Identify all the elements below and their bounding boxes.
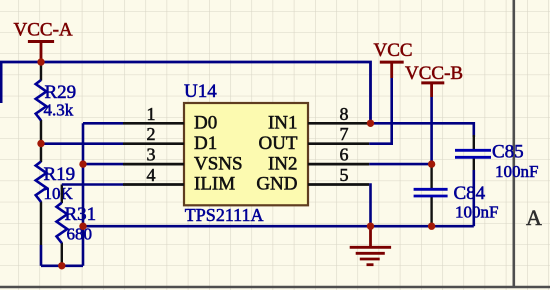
designator U14 xyxy=(184,81,217,102)
label R31 xyxy=(65,204,97,225)
wire left vertical x=83.0 (D0/VSNS/GND net) xyxy=(82,123,85,265)
sheet border right line xyxy=(512,0,515,288)
capacitor C85 leads xyxy=(473,135,475,226)
pin 1 (D0) xyxy=(123,122,184,125)
pin 5 (GND) xyxy=(308,183,369,186)
svg-text:A: A xyxy=(526,205,542,230)
resistor R19 xyxy=(36,162,47,202)
value 10K xyxy=(44,184,74,203)
svg-text:VSNS: VSNS xyxy=(194,153,243,174)
svg-text:4.3k: 4.3k xyxy=(44,101,74,120)
junction dot IN2 / VCC-B / C84 xyxy=(428,160,435,167)
svg-text:GND: GND xyxy=(256,174,297,195)
svg-text:D0: D0 xyxy=(194,113,217,134)
svg-text:VCC-A: VCC-A xyxy=(14,19,73,40)
svg-text:OUT: OUT xyxy=(258,133,297,154)
pin name D0 xyxy=(194,113,217,134)
svg-text:C84: C84 xyxy=(454,183,486,204)
value 4.3k xyxy=(44,101,74,120)
ground symbol xyxy=(350,226,391,265)
power symbol VCC-B xyxy=(405,63,463,97)
wire VCC-B to IN2 xyxy=(430,97,433,164)
junction dot at VCC-A / rail xyxy=(37,58,44,65)
junction dot IN1 / rail xyxy=(367,120,374,127)
resistor R29 leads xyxy=(40,62,42,144)
IC U14 body (TPS2111A) xyxy=(184,103,308,205)
svg-text:C85: C85 xyxy=(492,141,524,162)
capacitor C84 xyxy=(414,189,448,196)
pin 2 (D1) xyxy=(123,142,184,145)
wire ILIM row xyxy=(62,183,123,186)
resistor R31 xyxy=(57,203,68,243)
power symbol VCC-A xyxy=(14,19,73,62)
pin number 7 xyxy=(340,124,349,144)
pin number 8 xyxy=(340,104,349,124)
resistor R19 leads xyxy=(40,144,42,266)
pin number 2 xyxy=(147,124,156,144)
junction dot R29 bottom / D1 wire xyxy=(37,140,44,147)
svg-text:2: 2 xyxy=(147,124,156,144)
comment TPS2111A xyxy=(185,205,264,225)
pin name VSNS xyxy=(194,153,243,174)
sheet zone label A xyxy=(526,205,542,230)
label C84 xyxy=(454,183,486,204)
pin 3 (VSNS) xyxy=(123,163,184,166)
pin 8 (IN1) xyxy=(308,122,369,125)
sheet border bottom line xyxy=(0,286,550,289)
pin name GND xyxy=(256,174,297,195)
svg-text:3: 3 xyxy=(147,145,156,165)
pin number 4 xyxy=(147,165,156,185)
power symbol VCC xyxy=(374,40,413,78)
value 100nF C85 xyxy=(495,162,538,181)
svg-text:10K: 10K xyxy=(44,184,74,203)
wire ground rail xyxy=(83,225,474,228)
svg-text:IN2: IN2 xyxy=(268,153,298,174)
svg-text:D1: D1 xyxy=(194,133,217,154)
wire VCC to OUT xyxy=(369,78,392,144)
svg-text:100nF: 100nF xyxy=(495,162,538,181)
svg-text:4: 4 xyxy=(147,165,156,185)
label R29 xyxy=(45,82,77,103)
pin number 5 xyxy=(340,165,349,185)
junction dot ground rail left xyxy=(79,223,86,230)
wire: left edge vertical xyxy=(0,62,3,103)
svg-text:TPS2111A: TPS2111A xyxy=(185,205,264,225)
wire GND pin down xyxy=(369,185,370,227)
pin 6 (IN2) xyxy=(308,163,369,166)
pin 7 (OUT) xyxy=(308,142,369,145)
wire D0 row xyxy=(83,122,123,125)
wire: top VCC-A rail xyxy=(0,62,371,123)
pin name ILIM xyxy=(194,174,235,195)
pin name IN2 xyxy=(268,153,298,174)
svg-text:U14: U14 xyxy=(184,81,217,102)
pin number 6 xyxy=(340,145,349,165)
svg-text:VCC-B: VCC-B xyxy=(405,63,463,84)
wire VSNS row xyxy=(83,163,123,166)
junction dot VSNS xyxy=(79,160,86,167)
resistor R31 leads xyxy=(61,185,63,266)
value 100nF C84 xyxy=(455,202,498,221)
svg-text:IN1: IN1 xyxy=(268,113,298,134)
label R19 xyxy=(44,164,76,185)
wire IN2 row extension xyxy=(369,163,431,166)
svg-text:5: 5 xyxy=(340,165,349,185)
value 680 xyxy=(67,224,93,243)
pin name OUT xyxy=(258,133,297,154)
svg-text:ILIM: ILIM xyxy=(194,174,235,195)
junction dot GND rail xyxy=(367,223,374,230)
capacitor C84 leads xyxy=(430,164,432,226)
pin 4 (ILIM) xyxy=(123,183,184,186)
svg-text:R19: R19 xyxy=(44,164,76,185)
svg-text:R31: R31 xyxy=(65,204,97,225)
pin name IN1 xyxy=(268,113,298,134)
pin number 3 xyxy=(147,145,156,165)
junction dot C84 bottom xyxy=(428,223,435,230)
svg-text:100nF: 100nF xyxy=(455,202,498,221)
junction dot R31 bottom xyxy=(58,262,65,269)
svg-text:6: 6 xyxy=(340,145,349,165)
resistor R29 xyxy=(36,80,47,120)
svg-text:VCC: VCC xyxy=(374,40,413,61)
svg-text:8: 8 xyxy=(340,104,349,124)
pin name D1 xyxy=(194,133,217,154)
capacitor C85 xyxy=(455,150,491,157)
wire IN1 to C85 xyxy=(369,123,474,137)
pin number 1 xyxy=(147,104,156,124)
wire D1 row xyxy=(41,142,123,145)
svg-text:7: 7 xyxy=(340,124,349,144)
svg-text:1: 1 xyxy=(147,104,156,124)
wire bottom rail xyxy=(41,264,83,267)
label C85 xyxy=(492,141,524,162)
